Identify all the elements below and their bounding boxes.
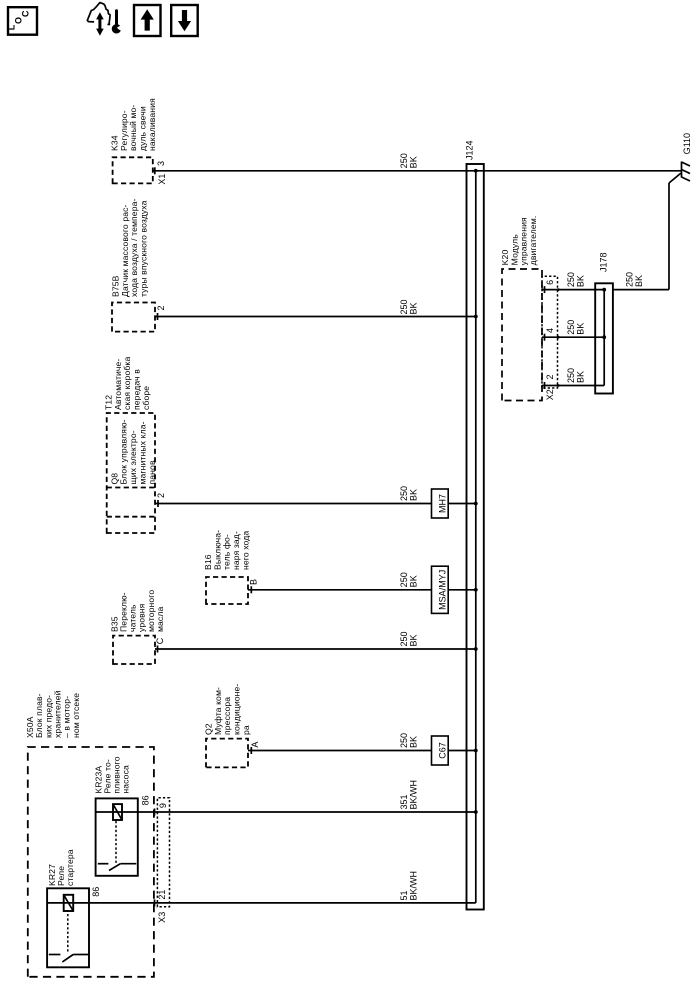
label X50A text: [25, 690, 81, 738]
pin tick Q2 pin A: [250, 747, 252, 754]
wire label 250 BK (B75B): [399, 299, 419, 314]
wire 351 BK/WH from KR23A to J124: [138, 811, 476, 813]
svg-text:250: 250: [566, 320, 576, 335]
svg-text:351: 351: [399, 794, 409, 809]
pin number 21 (X3): [157, 890, 167, 900]
wire label 250 BK (pin4): [566, 320, 586, 335]
pin tick K20 X2-4: [544, 334, 546, 341]
svg-text:250: 250: [399, 486, 409, 501]
svg-text:51: 51: [399, 890, 409, 900]
connector X2 (fine dashed box): [542, 276, 558, 388]
label J124: [465, 140, 475, 160]
svg-text:BK: BK: [409, 156, 419, 168]
junction dot K34 wire on J124 bus: [474, 169, 478, 173]
svg-text:250: 250: [399, 733, 409, 748]
inline connector MH7 box on Q8 wire: [432, 489, 449, 518]
label B16 text: [203, 530, 251, 570]
pin tick K20 X2-6: [544, 286, 546, 293]
component B35 engine oil level switch (dashed box): [113, 636, 155, 664]
KR23A coil element: [113, 804, 122, 820]
svg-text:250: 250: [399, 572, 409, 587]
svg-text:BK: BK: [576, 371, 586, 383]
pin number 9 (X3): [158, 803, 168, 808]
svg-text:X2: X2: [545, 389, 555, 400]
component T12 automatic transmission assembly (outer dashed box): [107, 413, 155, 533]
pin number 3: [156, 161, 166, 166]
ground G110 symbol: [682, 162, 691, 182]
component B75B mass air flow sensor (dashed box): [112, 303, 155, 332]
KR23A coil circuit line: [96, 811, 138, 813]
svg-text:G110: G110: [682, 133, 692, 154]
svg-text:6: 6: [545, 280, 555, 285]
wire label 250 BK (B35): [399, 631, 419, 646]
pin tick B16 pin B: [250, 586, 252, 593]
bus J178 internal bus wire: [603, 290, 605, 386]
bus J178 housing: [595, 283, 613, 393]
svg-text:BK: BK: [409, 575, 419, 587]
svg-text:ном отсеке: ном отсеке: [71, 693, 81, 738]
bus J124 internal bus wire: [475, 171, 477, 903]
pin tick KR27 at X50A boundary: [154, 899, 156, 906]
pin tick Q8 pin 2: [157, 500, 159, 507]
icon up-down double arrow: [96, 12, 104, 36]
svg-text:B: B: [248, 579, 258, 585]
component K20 engine control module (dashed box): [502, 269, 542, 401]
svg-text:X3: X3: [157, 912, 167, 923]
pin number 2 (K20): [545, 374, 555, 379]
pin tick K34 X1-3: [154, 167, 156, 174]
label KR23A text: [93, 756, 130, 793]
connector X2 label: [545, 389, 555, 400]
svg-text:250: 250: [399, 153, 409, 168]
wire 51 BK/WH from KR27 to J124: [89, 902, 476, 904]
svg-text:250: 250: [625, 272, 635, 287]
svg-text:BK: BK: [409, 634, 419, 646]
label Q8 control solenoid valve body text: [109, 419, 157, 484]
junction dot KR23A wire on J124 bus: [474, 810, 478, 814]
svg-text:MH7: MH7: [438, 494, 448, 513]
svg-text:BK: BK: [409, 302, 419, 314]
icon up arrow box: [134, 5, 161, 36]
T12 inner divider dashed lines: [107, 488, 155, 517]
svg-text:C67: C67: [438, 742, 448, 759]
pin number 2 (Q8): [156, 493, 166, 498]
pin letter B: [248, 579, 258, 585]
KR23A switch contact: [98, 864, 137, 871]
pin letter A: [250, 742, 260, 748]
svg-text:BK: BK: [576, 323, 586, 335]
svg-text:250: 250: [566, 272, 576, 287]
svg-text:250: 250: [566, 368, 576, 383]
dot pin4 wire at X2 edge: [557, 336, 560, 339]
dot pin2 wire at X2 edge: [557, 384, 560, 387]
wire label 250 BK (Q2): [399, 733, 419, 748]
wire label 250 BK (pin6): [566, 272, 586, 287]
KR23A coil-contact dashed link: [115, 820, 117, 863]
label KR27 text: [47, 849, 75, 886]
component X50A engine compartment fuse block (dashed box): [28, 747, 154, 977]
svg-text:туры впускного воздуха: туры впускного воздуха: [139, 200, 149, 297]
svg-text:J124: J124: [465, 140, 475, 160]
icon down arrow box: [171, 5, 198, 36]
svg-text:2: 2: [156, 493, 166, 498]
junction dot B16 wire on J124 bus: [474, 588, 478, 592]
wire label 351 BK/WH: [399, 780, 419, 810]
svg-text:C: C: [21, 10, 31, 17]
svg-text:3: 3: [156, 161, 166, 166]
pin tick B75B pin 2: [157, 313, 159, 320]
svg-text:250: 250: [399, 631, 409, 646]
svg-text:сборе: сборе: [141, 386, 151, 410]
svg-text:стартера: стартера: [65, 849, 75, 886]
svg-text:C: C: [155, 637, 165, 644]
svg-text:2: 2: [545, 374, 555, 379]
svg-text:накаливания: накаливания: [147, 98, 157, 151]
label K20 text: [500, 216, 538, 266]
KR27 coil circuit line: [47, 902, 89, 904]
inline connector MSA/MYJ box on B16 wire: [432, 566, 449, 613]
junction dot Q2 wire on J124 bus: [474, 749, 478, 753]
label G110: [682, 133, 692, 154]
svg-text:панов: панов: [147, 460, 157, 484]
pin number 6: [545, 280, 555, 285]
wire 250 BK from K34 through J124 to G110: [153, 170, 682, 172]
svg-text:21: 21: [157, 890, 167, 900]
svg-text:насоса: насоса: [120, 765, 130, 794]
label B75B text: [110, 199, 148, 297]
wire label 250 BK (K34): [399, 153, 419, 168]
svg-text:A: A: [250, 742, 260, 748]
pin tick KR23A at X50A boundary: [154, 809, 156, 816]
svg-text:250: 250: [399, 299, 409, 314]
svg-text:масла: масла: [155, 607, 165, 632]
svg-text:BK/WH: BK/WH: [409, 780, 419, 810]
icon LOC reference box: [7, 7, 38, 35]
wire label 250 BK (pin2): [566, 368, 586, 383]
svg-text:O: O: [14, 17, 24, 24]
wire 250 BK from Q8 to J124: [155, 503, 476, 505]
wire label 250 BK (Q8): [399, 486, 419, 501]
pin number 86 (KR27): [91, 887, 101, 897]
inline connector C67 box on Q2 wire: [432, 736, 449, 765]
component B16 backup lamp switch (dashed box): [206, 577, 248, 604]
icon vehicle hood outline: [87, 3, 110, 25]
component Q2 A/C compressor clutch (dashed box): [206, 739, 248, 768]
pin number 2 (B75B): [156, 305, 166, 310]
junction dot B35 wire on J124 bus: [474, 647, 478, 651]
svg-text:ра: ра: [241, 725, 251, 735]
svg-text:BK: BK: [409, 736, 419, 748]
junction dot pin6 on J178: [602, 288, 606, 292]
label T12 text: [103, 357, 151, 410]
wire label 51 BK/WH: [399, 871, 419, 901]
svg-text:BK/WH: BK/WH: [409, 871, 419, 901]
relay KR23A fuel pump relay (solid box): [96, 798, 138, 875]
svg-text:L: L: [7, 24, 17, 30]
svg-text:J178: J178: [599, 252, 609, 272]
label Q2 text: [203, 684, 251, 735]
svg-text:86: 86: [140, 795, 150, 805]
svg-text:BK: BK: [634, 275, 644, 287]
pin tick K20 X2-2: [544, 382, 546, 389]
svg-text:2: 2: [156, 305, 166, 310]
relay KR27 starter relay (solid box): [47, 888, 89, 967]
svg-text:X1: X1: [157, 174, 167, 185]
pin letter C: [155, 637, 165, 644]
wire label 250 BK (B16): [399, 572, 419, 587]
wire 250 BK from K20 pin4 to J178: [542, 336, 604, 338]
junction dot pin4 on J178: [602, 335, 606, 339]
connector X1 label: [157, 174, 167, 185]
svg-text:MSA/MYJ: MSA/MYJ: [438, 570, 448, 610]
svg-text:86: 86: [91, 887, 101, 897]
junction dot B75B wire on J124 bus: [474, 315, 478, 319]
connector X3 (fine dashed box): [157, 798, 169, 907]
svg-text:9: 9: [158, 803, 168, 808]
component K34 glow plug control module (dashed box): [113, 157, 153, 183]
label K34 text: [109, 98, 157, 151]
label B35 text: [109, 590, 164, 632]
svg-text:BK: BK: [576, 275, 586, 287]
bus J124 housing: [467, 164, 484, 910]
junction dot Q8 wire on J124 bus: [474, 502, 478, 506]
connector X3 label: [157, 912, 167, 923]
wire label 250 BK (J178 to G110): [625, 272, 645, 287]
wire 250 BK from B75B to J124: [155, 316, 476, 318]
wire 250 BK from Q2 to J124: [248, 750, 476, 752]
svg-text:BK: BK: [409, 489, 419, 501]
svg-text:двигателем.: двигателем.: [528, 216, 538, 266]
pin tick B35 pin C: [157, 646, 159, 653]
KR27 coil-contact dashed link: [67, 911, 69, 952]
dot pin6 wire at X2 edge: [557, 288, 560, 291]
wire 250 BK from B16 to J124: [248, 589, 476, 591]
svg-text:него хода: него хода: [241, 531, 251, 570]
wire 250 BK from K20 pin2 to J178: [542, 385, 604, 387]
label J178: [599, 252, 609, 272]
pin number 4: [545, 328, 555, 333]
wire 250 BK from J178 to G110: [613, 173, 681, 290]
svg-text:4: 4: [545, 328, 555, 333]
KR27 coil element: [64, 895, 73, 911]
wire 250 BK from K20 pin6 to J178: [542, 289, 604, 291]
KR27 switch contact: [49, 955, 89, 962]
pin number 86 (KR23A): [140, 795, 150, 805]
icon wrench: [112, 11, 121, 34]
wire 250 BK from B35 to J124: [155, 648, 476, 650]
